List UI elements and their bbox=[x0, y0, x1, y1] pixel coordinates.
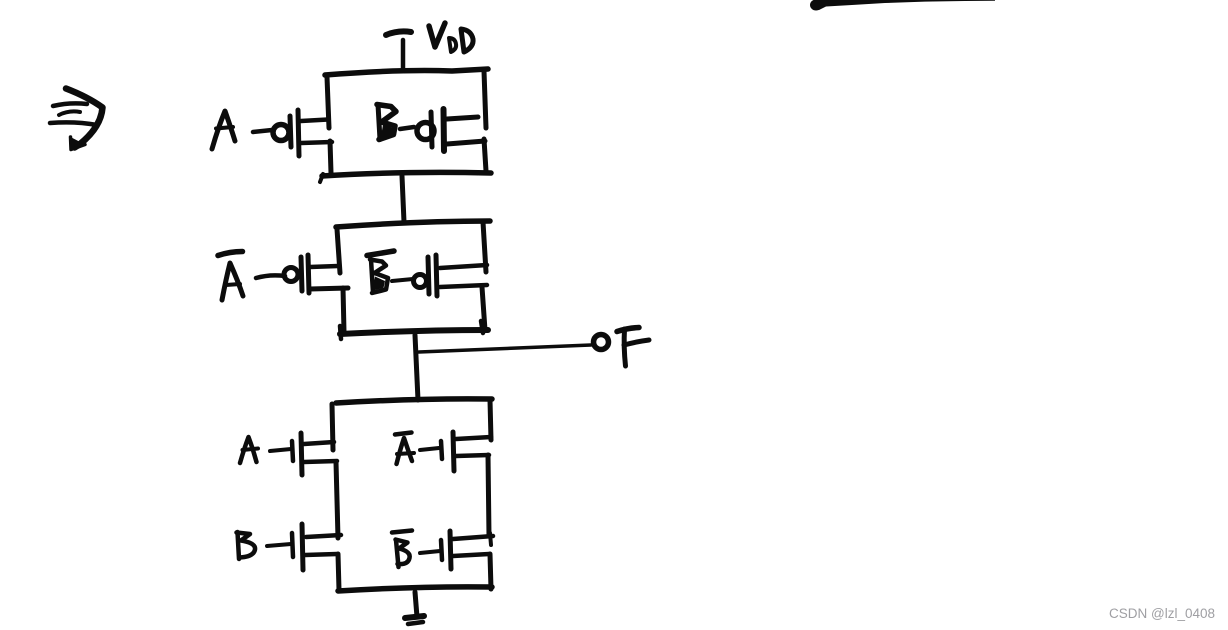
nmos A drain stub bbox=[304, 442, 334, 444]
box2 bottom rail bbox=[340, 321, 488, 339]
pmos A bubble bbox=[273, 125, 289, 141]
box3 right rail mid bbox=[488, 455, 489, 536]
pmos A gate wire bbox=[253, 130, 272, 132]
nmos Bbar source stub bbox=[453, 554, 489, 556]
box1 PMOS pair: top rail bbox=[325, 69, 488, 75]
box2 left edge lower bbox=[343, 288, 344, 332]
nmos Abar drain stub bbox=[456, 437, 491, 439]
VDD power symbol bbox=[386, 31, 411, 68]
nmos Bbar gate wire bbox=[420, 551, 440, 553]
pmos A gate bar bbox=[290, 116, 291, 147]
nmos A gate bar bbox=[292, 441, 293, 461]
pmos B channel bar bbox=[441, 109, 448, 151]
label A (pmos) bbox=[212, 111, 235, 149]
pmos A channel bar bbox=[298, 110, 299, 156]
watermark bbox=[1109, 606, 1215, 621]
F terminal circle bbox=[594, 335, 609, 350]
pmos Bbar bubble bbox=[414, 275, 427, 288]
box2 top rail bbox=[336, 221, 490, 227]
wire to F bbox=[419, 345, 591, 352]
label A-bar (pmos) bbox=[218, 252, 243, 301]
pmos Bbar source stub bbox=[440, 265, 487, 268]
box3 bottom rail bbox=[338, 587, 492, 591]
label A-bar (nmos) bbox=[395, 433, 414, 465]
pmos Bbar channel bar bbox=[436, 255, 437, 296]
nmos A source stub bbox=[304, 461, 337, 462]
pmos Abar gate bar bbox=[301, 257, 302, 291]
box2 right edge lower bbox=[482, 287, 485, 330]
pmos B drain stub bbox=[447, 141, 485, 144]
nmos B gate bar bbox=[292, 533, 293, 557]
pmos Abar source stub bbox=[310, 266, 338, 267]
VDD label bbox=[429, 23, 473, 52]
box3 left rail lower bbox=[338, 554, 339, 590]
pmos Abar drain stub bbox=[310, 288, 348, 289]
wire box1 to box2 bbox=[402, 176, 404, 222]
box1 bottom rail bbox=[320, 172, 491, 182]
label B-bar (pmos) bbox=[367, 251, 394, 293]
pmos Bbar gate bar bbox=[428, 257, 429, 294]
pmos A drain stub bbox=[301, 142, 332, 143]
nmos B drain stub bbox=[306, 535, 341, 537]
nmos B source stub bbox=[305, 554, 337, 555]
pmos Abar gate wire bbox=[256, 275, 285, 278]
nmos Abar gate wire bbox=[420, 448, 439, 450]
pmos Abar bubble bbox=[284, 268, 298, 282]
box1 right edge lower bbox=[484, 139, 486, 171]
label F bbox=[617, 328, 649, 367]
nmos Abar channel bar bbox=[453, 432, 454, 471]
label B (nmos) bbox=[237, 532, 256, 559]
nmos A gate wire bbox=[270, 449, 291, 451]
pmos B gate bar bbox=[431, 112, 432, 147]
box1 left edge upper bbox=[327, 77, 329, 128]
pmos B gate wire bbox=[400, 127, 414, 129]
pmos B bubble bbox=[417, 123, 434, 140]
output node wire down bbox=[415, 335, 418, 400]
label B (pmos) bbox=[377, 105, 396, 140]
box2 right edge upper bbox=[483, 222, 486, 272]
box3 top rail bbox=[336, 399, 492, 440]
label A (nmos) bbox=[240, 437, 258, 463]
nmos Bbar gate bar bbox=[441, 540, 442, 560]
ground bbox=[405, 592, 424, 624]
nmos Bbar channel bar bbox=[450, 531, 451, 569]
box2 left edge upper bbox=[337, 229, 340, 273]
pmos B source stub bbox=[447, 117, 478, 119]
pmos Abar channel bar bbox=[308, 255, 309, 293]
top-right cropped stroke bbox=[810, 0, 995, 11]
nmos B channel bar bbox=[302, 524, 303, 570]
hand-drawn double arrow bbox=[50, 89, 103, 150]
nmos Abar gate bar bbox=[441, 441, 442, 459]
box1 right edge upper bbox=[484, 71, 486, 128]
nmos B gate wire bbox=[267, 544, 291, 546]
nmos A channel bar bbox=[301, 433, 302, 475]
box3 left rail upper bbox=[332, 404, 333, 450]
box3 left rail mid bbox=[336, 462, 338, 538]
nmos Bbar drain stub bbox=[453, 533, 493, 545]
label B-bar (nmos) bbox=[392, 531, 412, 568]
box3 right rail lower bbox=[490, 554, 491, 589]
pmos Bbar gate wire bbox=[392, 279, 413, 281]
nmos Abar source stub bbox=[456, 455, 489, 456]
pmos A source stub bbox=[301, 120, 328, 122]
box1 left edge lower bbox=[330, 141, 331, 173]
pmos Bbar drain stub bbox=[440, 285, 487, 287]
